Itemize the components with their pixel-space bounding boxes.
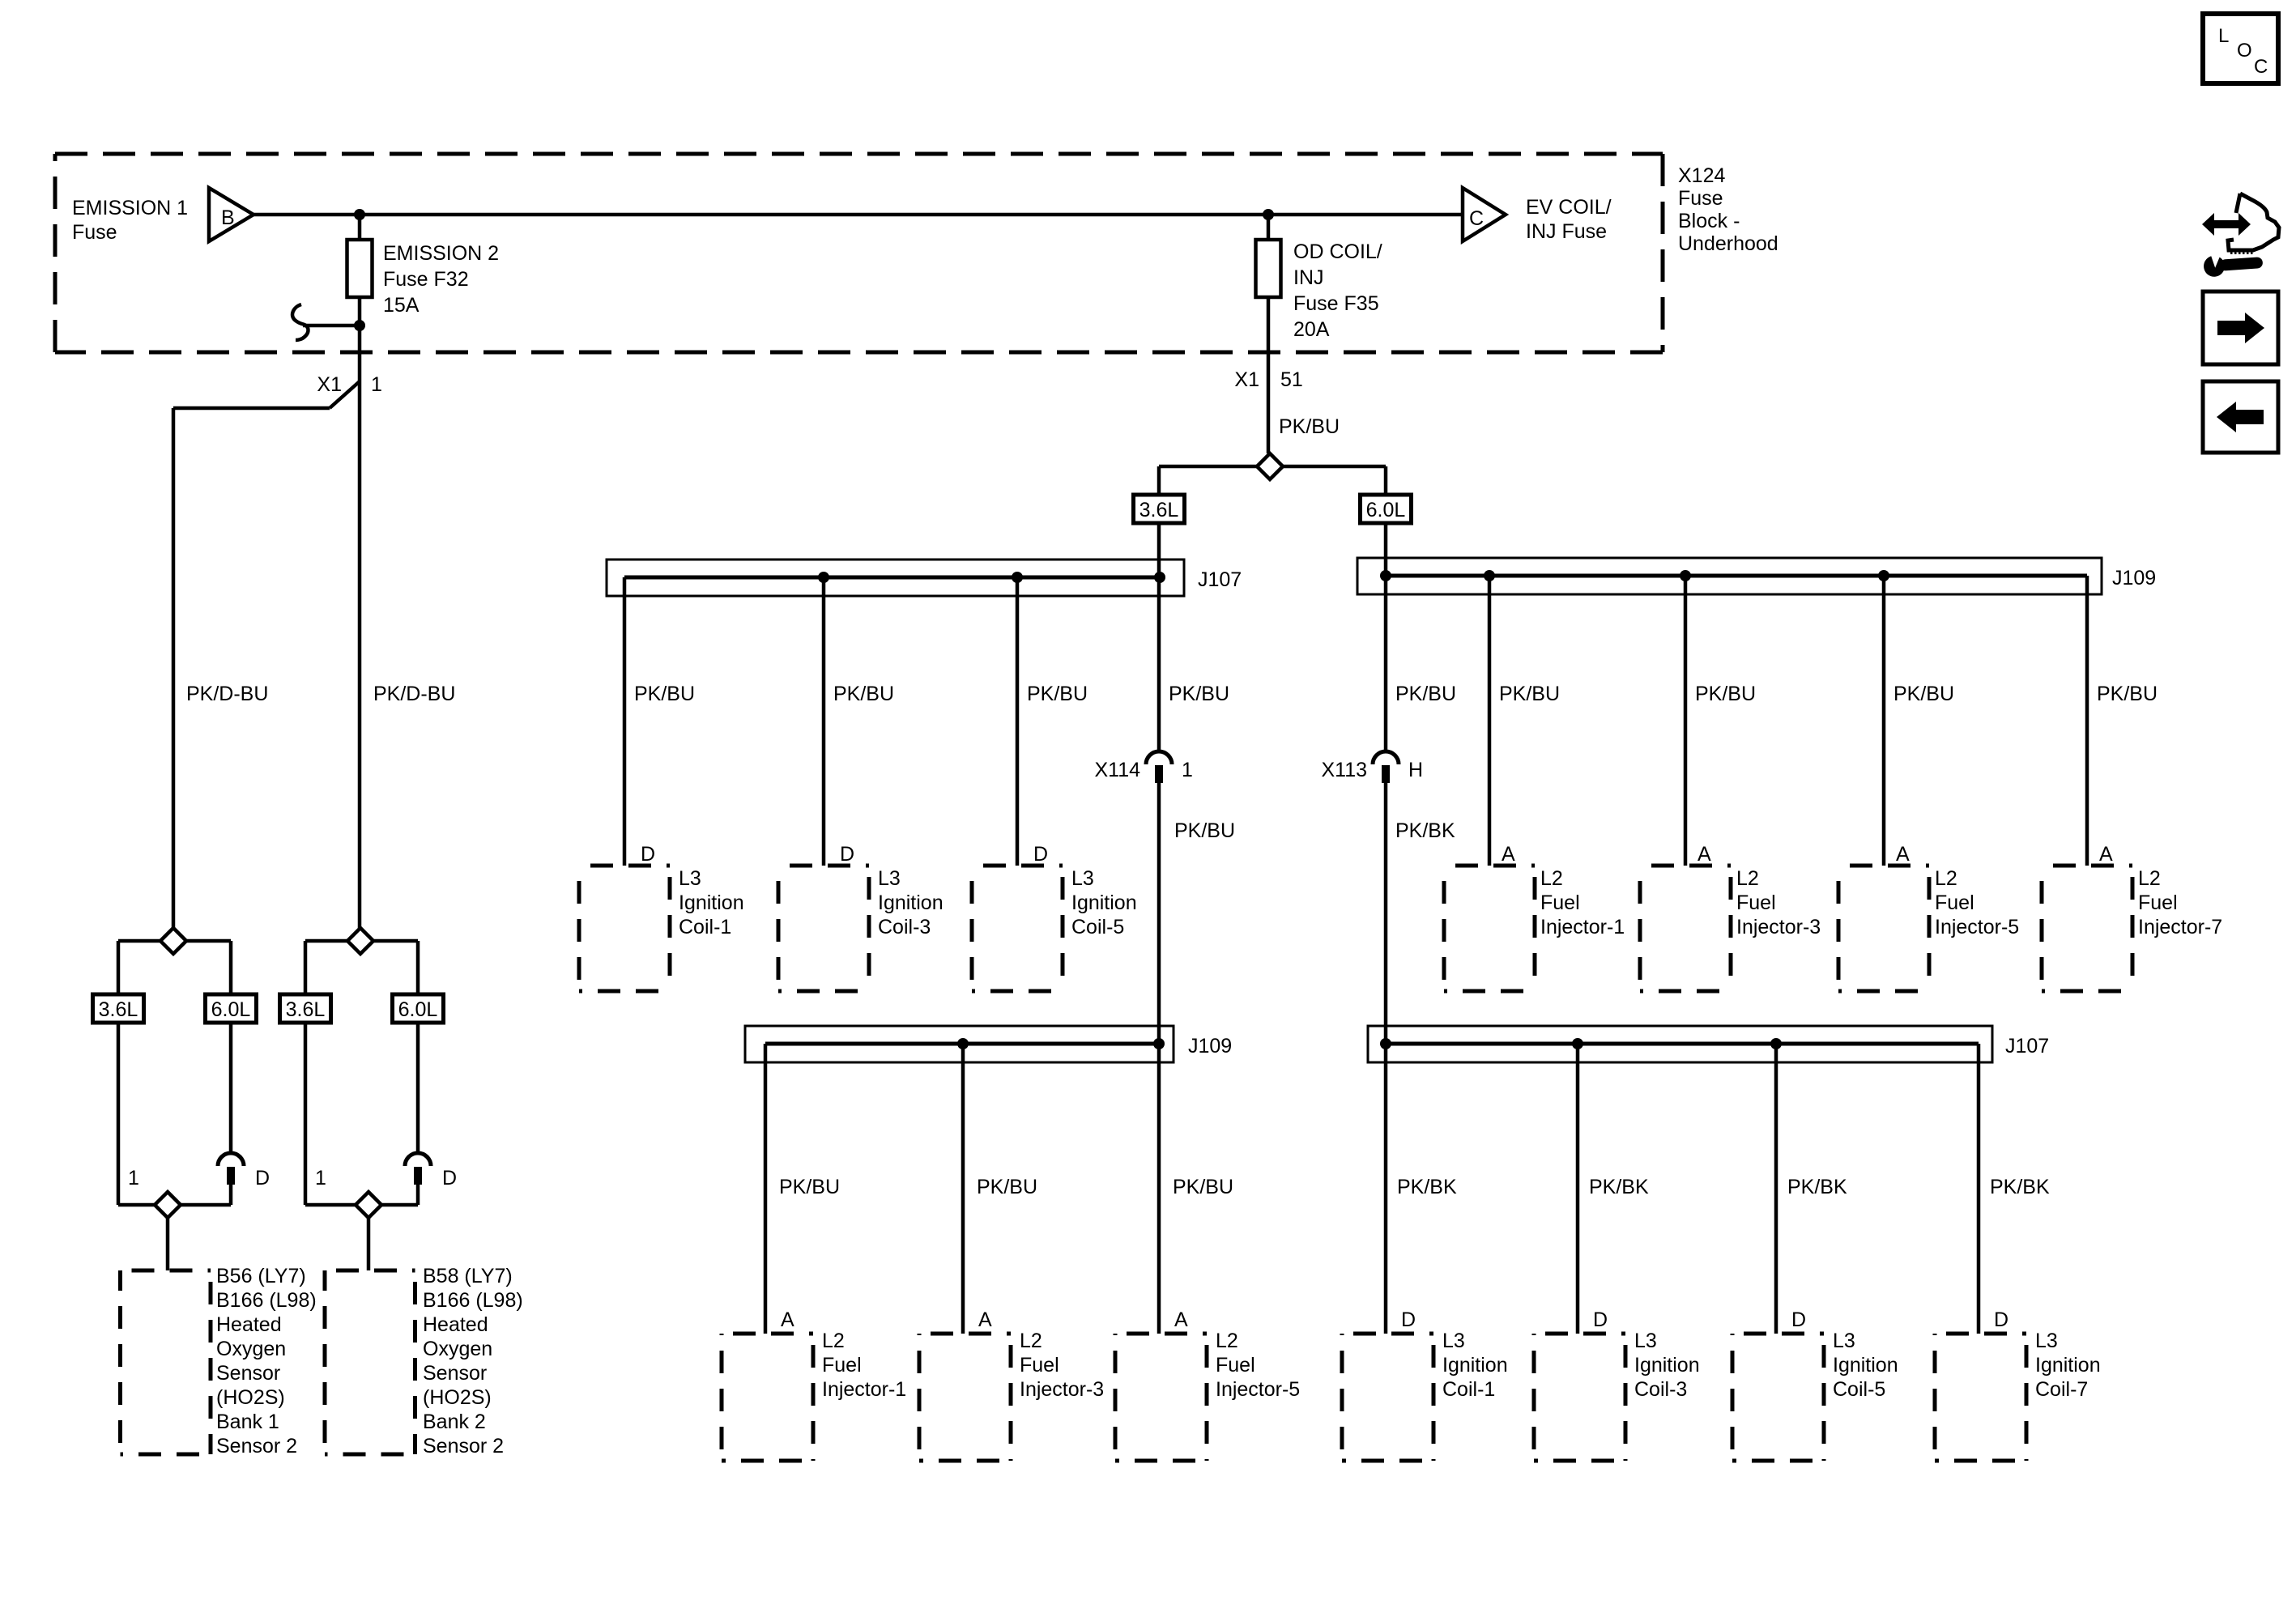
label HO2S Bank 2 Sensor 2 [423,1265,523,1457]
label L3 Ignition Coil-3 [1634,1330,1700,1401]
svg-text:L2: L2 [822,1330,845,1352]
wire drop to Fuel Injector-1 [764,1044,768,1334]
svg-text:A: A [1896,843,1910,866]
svg-text:Bank 1: Bank 1 [216,1411,279,1433]
svg-text:Fuel: Fuel [822,1354,862,1377]
svg-text:X1: X1 [317,373,342,396]
engine option box 6.0L [206,994,257,1023]
svg-text:Underhood: Underhood [1678,232,1778,255]
label L2 Fuel Injector-5 [1216,1330,1300,1401]
svg-text:O: O [2237,40,2252,62]
wire drop to Ignition Coil-3 [1576,1044,1580,1334]
wire drop to Ignition Coil-3 [822,577,826,866]
component box L2 Fuel Injector-3 [919,1334,1011,1461]
wire 6.0L to J109 bus and X113 [1384,523,1388,751]
wire below ring [416,1185,420,1205]
fuse F32 EMISSION 2 15A [347,240,373,297]
next-page button [2203,291,2278,364]
hood adjust icon [2228,194,2279,250]
component box HO2S Bank 2 Sensor 2 [325,1270,415,1454]
svg-text:A: A [781,1308,794,1331]
svg-text:Injector-7: Injector-7 [2138,916,2222,938]
wire to 6.0L box [1384,466,1388,495]
junction block J107 upper [607,560,1242,596]
svg-text:PK/BU: PK/BU [1499,683,1560,705]
wire X113 to J107 bus to Coil-1 [1384,783,1388,1334]
svg-text:L: L [2218,25,2229,47]
wire squiggle tail [303,324,360,328]
label L2 Fuel Injector-1 [822,1330,906,1401]
svg-text:Sensor: Sensor [423,1362,487,1385]
component box L2 Fuel Injector-3 [1640,866,1731,991]
component box L3 Ignition Coil-7 [1935,1334,2026,1461]
svg-text:PK/BU: PK/BU [1695,683,1756,705]
svg-text:D: D [1033,843,1048,866]
svg-text:L3: L3 [878,867,901,890]
hood serrated edge [2230,251,2254,254]
svg-text:Ignition: Ignition [679,891,744,914]
wire lower join [118,1203,231,1207]
svg-text:A: A [1174,1308,1188,1331]
wire to fuse F35 [1267,215,1271,240]
fuse F35 OD COIL/INJ 20A [1256,240,1281,297]
svg-text:Fuse F32: Fuse F32 [383,268,469,291]
connector ring branch 2 [405,1153,431,1185]
svg-text:Heated: Heated [423,1313,488,1336]
svg-text:H: H [1408,759,1423,781]
svg-text:B58 (LY7): B58 (LY7) [423,1265,513,1287]
svg-text:J109: J109 [1188,1035,1232,1057]
svg-text:Fuse: Fuse [1678,187,1723,210]
svg-text:PK/BK: PK/BK [1395,819,1455,842]
label L3 Ignition Coil-1 [679,867,744,938]
wire to 6.0L box [416,941,420,994]
svg-text:C: C [2254,56,2268,78]
wire X114 to J109 bus to Injector-5 [1157,783,1161,1334]
svg-text:(HO2S): (HO2S) [216,1386,285,1409]
splice diamond lower branch 1 [155,1192,181,1218]
svg-text:L2: L2 [1020,1330,1042,1352]
svg-text:PK/BK: PK/BK [1397,1176,1457,1198]
svg-text:1: 1 [371,373,382,396]
svg-text:PK/BU: PK/BU [1173,1176,1233,1198]
svg-text:PK/BU: PK/BU [779,1176,840,1198]
svg-text:Injector-1: Injector-1 [822,1378,906,1401]
component box L3 Ignition Coil-1 [1342,1334,1433,1461]
svg-text:J107: J107 [2005,1035,2049,1057]
svg-text:D: D [1791,1308,1806,1331]
svg-text:Coil-5: Coil-5 [1833,1378,1885,1401]
label L3 Ignition Coil-7 [2035,1330,2101,1401]
svg-text:Fuel: Fuel [1020,1354,1059,1377]
label L3 Ignition Coil-3 [878,867,944,938]
component box L2 Fuel Injector-5 [1115,1334,1207,1461]
svg-text:OD COIL/: OD COIL/ [1293,240,1382,263]
wire splice left arm [1159,465,1257,469]
svg-text:PK/BU: PK/BU [977,1176,1037,1198]
svg-text:1: 1 [315,1167,326,1189]
svg-text:D: D [1994,1308,2008,1331]
fuse feed triangle C [1463,188,1506,241]
wire fuse F35 to splice diamond [1267,297,1271,453]
svg-text:Fuel: Fuel [1935,891,1974,914]
svg-text:Ignition: Ignition [1071,891,1137,914]
svg-text:Heated: Heated [216,1313,282,1336]
wire 3.6L drop [117,1023,121,1205]
svg-text:D: D [840,843,854,866]
svg-text:Oxygen: Oxygen [423,1338,492,1360]
label EMISSION 1 Fuse [72,197,188,244]
wire 3.6L drop [304,1023,308,1205]
svg-text:15A: 15A [383,294,420,317]
svg-text:Fuel: Fuel [1216,1354,1255,1377]
svg-text:PK/BU: PK/BU [634,683,695,705]
svg-text:L2: L2 [1935,867,1957,890]
svg-text:6.0L: 6.0L [211,998,251,1021]
engine option box 3.6L [93,994,144,1023]
svg-text:L3: L3 [1833,1330,1855,1352]
svg-text:X113: X113 [1321,759,1367,781]
svg-text:Coil-7: Coil-7 [2035,1378,2088,1401]
svg-text:Fuel: Fuel [1540,891,1580,914]
wire to HO2S box [166,1218,170,1270]
wire splice right arm [186,939,231,943]
svg-text:PK/BU: PK/BU [1395,683,1456,705]
svg-text:A: A [1698,843,1711,866]
label L2 Fuel Injector-3 [1020,1330,1104,1401]
svg-text:D: D [255,1167,270,1189]
svg-text:L2: L2 [2138,867,2161,890]
svg-text:Oxygen: Oxygen [216,1338,286,1360]
label L2 Fuel Injector-3 [1736,867,1821,938]
prev-page button [2203,381,2278,453]
label EMISSION 2 Fuse F32 15A [383,242,499,317]
splice diamond lower branch 2 [356,1192,381,1218]
svg-text:B56 (LY7): B56 (LY7) [216,1265,306,1287]
label L3 Ignition Coil-5 [1071,867,1137,938]
svg-text:D: D [442,1167,457,1189]
LOC reference box [2203,14,2278,83]
junction block J107 lower [1368,1026,2049,1062]
svg-text:51: 51 [1280,368,1303,391]
svg-text:Coil-5: Coil-5 [1071,916,1124,938]
svg-text:PK/BU: PK/BU [1893,683,1954,705]
wire to fuse F32 [358,215,362,240]
svg-text:Block -: Block - [1678,210,1740,232]
wire splice left arm [118,939,160,943]
label L2 Fuel Injector-5 [1935,867,2019,938]
svg-text:PK/BU: PK/BU [1027,683,1088,705]
component box HO2S Bank 1 Sensor 2 [121,1270,211,1454]
svg-text:Fuel: Fuel [1736,891,1776,914]
wire drop to Ignition Coil-1 [623,577,627,866]
component box L3 Ignition Coil-1 [579,866,670,991]
wire drop to Ignition Coil-5 [1016,577,1020,866]
svg-text:6.0L: 6.0L [398,998,438,1021]
svg-text:J107: J107 [1198,568,1242,591]
svg-text:Ignition: Ignition [1833,1354,1898,1377]
engine option box 6.0L [393,994,444,1023]
svg-text:6.0L: 6.0L [1366,499,1406,521]
svg-text:PK/BK: PK/BK [1589,1176,1649,1198]
wire to 3.6L box [304,941,308,994]
svg-text:L3: L3 [1442,1330,1465,1352]
wire 6.0L drop [229,1023,233,1153]
wire drop to Ignition Coil-7 [1977,1044,1981,1334]
svg-text:(HO2S): (HO2S) [423,1386,492,1409]
wire fuse F32 to splice diamond [358,297,362,928]
component box L3 Ignition Coil-5 [972,866,1063,991]
label EV COIL / INJ Fuse [1526,196,1612,243]
svg-text:Coil-3: Coil-3 [878,916,931,938]
splice diamond HO2S branch 1 [160,928,186,954]
component box L3 Ignition Coil-5 [1732,1334,1824,1461]
svg-text:1: 1 [1182,759,1193,781]
svg-text:Fuse: Fuse [72,221,117,244]
connector X114 pin 1 [1146,751,1172,783]
svg-text:Injector-3: Injector-3 [1020,1378,1104,1401]
label HO2S Bank 1 Sensor 2 [216,1265,317,1457]
label L3 Ignition Coil-1 [1442,1330,1508,1401]
svg-text:3.6L: 3.6L [1139,499,1179,521]
wire lower join [305,1203,418,1207]
component box L3 Ignition Coil-3 [1534,1334,1625,1461]
svg-text:Bank 2: Bank 2 [423,1411,486,1433]
squiggle branch symbol [292,304,308,340]
double arrow [2202,213,2251,236]
svg-text:Ignition: Ignition [2035,1354,2101,1377]
wire to 6.0L box [229,941,233,994]
label L3 Ignition Coil-5 [1833,1330,1898,1401]
svg-text:PK/BU: PK/BU [1169,683,1229,705]
wire branch horizontal [173,406,330,411]
junction block J109 upper [1357,558,2156,594]
svg-text:Coil-1: Coil-1 [679,916,731,938]
svg-text:Fuse F35: Fuse F35 [1293,292,1379,315]
splice diamond engine split [1257,453,1283,479]
wrench icon [2203,249,2264,278]
svg-text:Injector-5: Injector-5 [1216,1378,1300,1401]
wire 6.0L drop [416,1023,420,1153]
svg-text:Fuel: Fuel [2138,891,2178,914]
svg-text:L2: L2 [1736,867,1759,890]
label X124 Fuse Block - Underhood [1678,164,1778,255]
wire to 3.6L box [1157,466,1161,495]
svg-text:20A: 20A [1293,318,1330,341]
wire splice right arm [373,939,418,943]
svg-text:L3: L3 [1071,867,1094,890]
component box L3 Ignition Coil-3 [778,866,869,991]
svg-text:A: A [978,1308,992,1331]
wire to HO2S box [367,1218,371,1270]
svg-text:L3: L3 [2035,1330,2058,1352]
label L2 Fuel Injector-7 [2138,867,2222,938]
svg-text:1: 1 [128,1167,139,1189]
svg-text:B: B [221,206,235,229]
label L2 Fuel Injector-1 [1540,867,1625,938]
svg-text:INJ Fuse: INJ Fuse [1526,220,1607,243]
svg-text:Sensor: Sensor [216,1362,280,1385]
svg-text:X1: X1 [1234,368,1259,391]
wire drop to Fuel Injector-3 [1684,576,1688,866]
svg-text:B166 (L98): B166 (L98) [423,1289,523,1312]
svg-text:Sensor 2: Sensor 2 [216,1435,297,1457]
component box L2 Fuel Injector-7 [2042,866,2132,991]
svg-text:Injector-3: Injector-3 [1736,916,1821,938]
svg-text:INJ: INJ [1293,266,1324,289]
fuse feed triangle B [209,188,253,241]
svg-text:Sensor 2: Sensor 2 [423,1435,504,1457]
svg-text:Injector-5: Injector-5 [1935,916,2019,938]
junction dot at EMISSION 2 fuse tap [354,209,365,220]
component box L2 Fuel Injector-1 [722,1334,813,1461]
svg-text:PK/BU: PK/BU [833,683,894,705]
wire drop to Fuel Injector-5 [1882,576,1886,866]
wire branch diagonal at X1 pin 1 [330,381,360,408]
svg-text:L2: L2 [1540,867,1563,890]
svg-text:PK/D-BU: PK/D-BU [373,683,455,705]
svg-text:Injector-1: Injector-1 [1540,916,1625,938]
wire drop to Fuel Injector-7 [2085,576,2089,866]
junction dot at OD COIL fuse tap [1263,209,1274,220]
svg-text:3.6L: 3.6L [286,998,326,1021]
svg-text:D: D [641,843,655,866]
wire PK/D-BU left drop [172,408,176,928]
svg-text:B166 (L98): B166 (L98) [216,1289,317,1312]
wire drop to Fuel Injector-3 [961,1044,965,1334]
svg-text:A: A [1502,843,1515,866]
connector X113 pin H [1373,751,1399,783]
svg-text:PK/BU: PK/BU [1174,819,1235,842]
wire splice right arm [1283,465,1386,469]
svg-text:PK/BU: PK/BU [2097,683,2158,705]
svg-text:D: D [1593,1308,1608,1331]
wire below ring [229,1185,233,1205]
svg-text:X124: X124 [1678,164,1725,187]
wire 3.6L to J107 bus and X114 [1157,523,1161,751]
connector ring branch 1 [218,1153,244,1185]
svg-text:EMISSION 1: EMISSION 1 [72,197,188,219]
junction block J109 lower [745,1026,1232,1062]
fuse block X124 dashed box [55,154,1663,352]
svg-text:Coil-1: Coil-1 [1442,1378,1495,1401]
svg-text:EMISSION 2: EMISSION 2 [383,242,499,265]
svg-text:Ignition: Ignition [1442,1354,1508,1377]
svg-text:Ignition: Ignition [878,891,944,914]
svg-text:L2: L2 [1216,1330,1238,1352]
label OD COIL/ INJ Fuse F35 20A [1293,240,1382,341]
svg-text:C: C [1469,207,1484,230]
svg-text:L3: L3 [1634,1330,1657,1352]
wire splice left arm [305,939,347,943]
svg-text:PK/D-BU: PK/D-BU [186,683,268,705]
svg-text:Ignition: Ignition [1634,1354,1700,1377]
splice diamond HO2S branch 2 [347,928,373,954]
wire drop to Fuel Injector-1 [1488,576,1492,866]
engine option box 6.0L [1361,495,1412,523]
svg-text:3.6L: 3.6L [99,998,138,1021]
engine option box 3.6L [1134,495,1185,523]
svg-text:L3: L3 [679,867,701,890]
wire to 3.6L box [117,941,121,994]
wire main feed rail [253,213,1463,217]
wire drop to Ignition Coil-5 [1774,1044,1778,1334]
svg-text:EV COIL/: EV COIL/ [1526,196,1612,219]
junction dot squiggle tap [354,320,365,331]
svg-text:J109: J109 [2112,567,2156,589]
svg-text:PK/BU: PK/BU [1279,415,1340,438]
engine option box 3.6L [280,994,331,1023]
svg-text:D: D [1401,1308,1416,1331]
svg-text:PK/BK: PK/BK [1990,1176,2050,1198]
component box L2 Fuel Injector-5 [1838,866,1929,991]
svg-text:A: A [2099,843,2113,866]
svg-text:Coil-3: Coil-3 [1634,1378,1687,1401]
svg-text:X114: X114 [1094,759,1140,781]
svg-text:PK/BK: PK/BK [1787,1176,1847,1198]
component box L2 Fuel Injector-1 [1444,866,1535,991]
